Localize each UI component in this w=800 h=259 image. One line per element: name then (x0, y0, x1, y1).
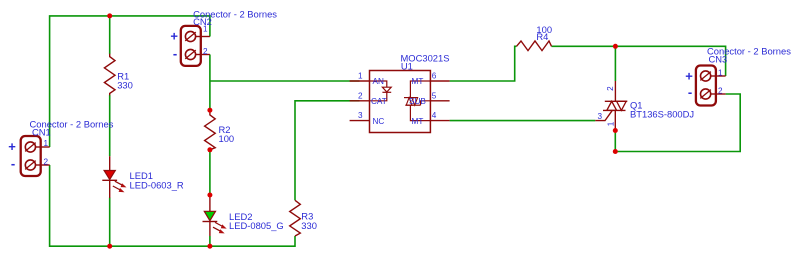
junction R2 bottom (207, 147, 212, 152)
svg-text:100: 100 (219, 133, 235, 144)
svg-text:-: - (688, 85, 692, 100)
wire top rail branch down to R1 (109, 16, 111, 54)
junction bottom rail / LED2 (207, 244, 212, 249)
wire U1 pin2 CAT to R3 top (295, 101, 360, 201)
resistor R4 (517, 41, 552, 51)
svg-text:1: 1 (44, 139, 49, 148)
svg-text:2: 2 (203, 47, 208, 56)
svg-text:+: + (685, 68, 693, 83)
wire branch to U1 pin1 AN (210, 80, 360, 82)
svg-text:CN1: CN1 (32, 127, 51, 138)
svg-text:5: 5 (432, 91, 437, 100)
svg-text:U1: U1 (401, 61, 413, 72)
svg-text:2: 2 (718, 86, 723, 95)
svg-text:2: 2 (44, 158, 49, 167)
svg-text:-: - (173, 46, 177, 61)
junction bottom right corner (613, 149, 618, 154)
U1 internal LED diode (370, 81, 387, 87)
junction R2 top (207, 108, 212, 113)
svg-text:6: 6 (432, 72, 437, 81)
svg-text:1: 1 (358, 72, 363, 81)
connector CN3 body (696, 66, 726, 106)
connector CN1 body (21, 136, 50, 176)
wire LED1 cathode to bottom rail (109, 198, 111, 247)
svg-text:330: 330 (117, 79, 133, 90)
resistor R2 (205, 110, 216, 150)
svg-text:2: 2 (606, 86, 615, 91)
svg-text:1: 1 (718, 68, 723, 77)
U1 internal triac (410, 81, 430, 98)
svg-text:LED-0603_R: LED-0603_R (130, 180, 184, 191)
wire LED2 cathode to bottom rail (209, 236, 211, 246)
svg-text:3: 3 (598, 112, 603, 121)
wire CN2 pin2 down to R2 top (209, 55, 211, 111)
wire net from CN1 pin1 via top rail to CN2 pin1 (50, 16, 210, 147)
wire R1 bottom to LED1 anode (109, 95, 111, 156)
LED LED1 (102, 156, 126, 198)
svg-text:MT: MT (412, 117, 424, 126)
wire R2 bottom to LED2 anode (209, 150, 211, 195)
svg-text:CN3: CN3 (709, 54, 728, 65)
junction LED2 top (207, 193, 212, 198)
svg-text:1: 1 (606, 121, 615, 126)
svg-text:3: 3 (358, 111, 363, 120)
wire Q1 terminal 1 to CN3 pin2 (615, 94, 740, 152)
wire U1 pin6 MT to R4 left (450, 46, 517, 81)
svg-text:AN: AN (373, 77, 384, 86)
svg-text:R4: R4 (536, 31, 548, 42)
svg-text:MT: MT (412, 77, 424, 86)
svg-text:-: - (11, 156, 15, 171)
svg-text:2: 2 (358, 91, 363, 100)
wire U1 pin4 MT to Q1 gate (450, 120, 596, 122)
connector CN2 body (181, 26, 210, 66)
wire CN1 pin2 down along bottom rail up to R3 bottom (50, 165, 295, 246)
junction Q1 pin1 (613, 128, 618, 133)
junction R4 / Q1 (613, 44, 618, 49)
svg-text:CAT: CAT (371, 97, 387, 106)
svg-text:+: + (8, 139, 16, 154)
triac Q1 BT136S-800DJ (595, 81, 627, 131)
resistor R3 (290, 200, 301, 236)
wire R4 right to CN3 pin1 (552, 46, 726, 76)
svg-text:330: 330 (301, 220, 317, 231)
svg-text:1: 1 (203, 25, 208, 34)
resistor R1 (104, 54, 115, 96)
svg-text:LED-0805_G: LED-0805_G (229, 220, 284, 231)
svg-text:BT136S-800DJ: BT136S-800DJ (630, 108, 694, 119)
svg-text:4: 4 (432, 111, 437, 120)
svg-text:NC: NC (373, 117, 385, 126)
junction bottom rail / LED1 (107, 244, 112, 249)
svg-text:SUB: SUB (409, 97, 426, 106)
wire junction down to Q1 terminal 2 (614, 46, 616, 81)
LED LED2 (203, 195, 227, 236)
svg-text:+: + (170, 29, 178, 44)
opto-coupler U1 MOC3021S (350, 71, 450, 133)
junction top rail / R1 (107, 13, 112, 18)
